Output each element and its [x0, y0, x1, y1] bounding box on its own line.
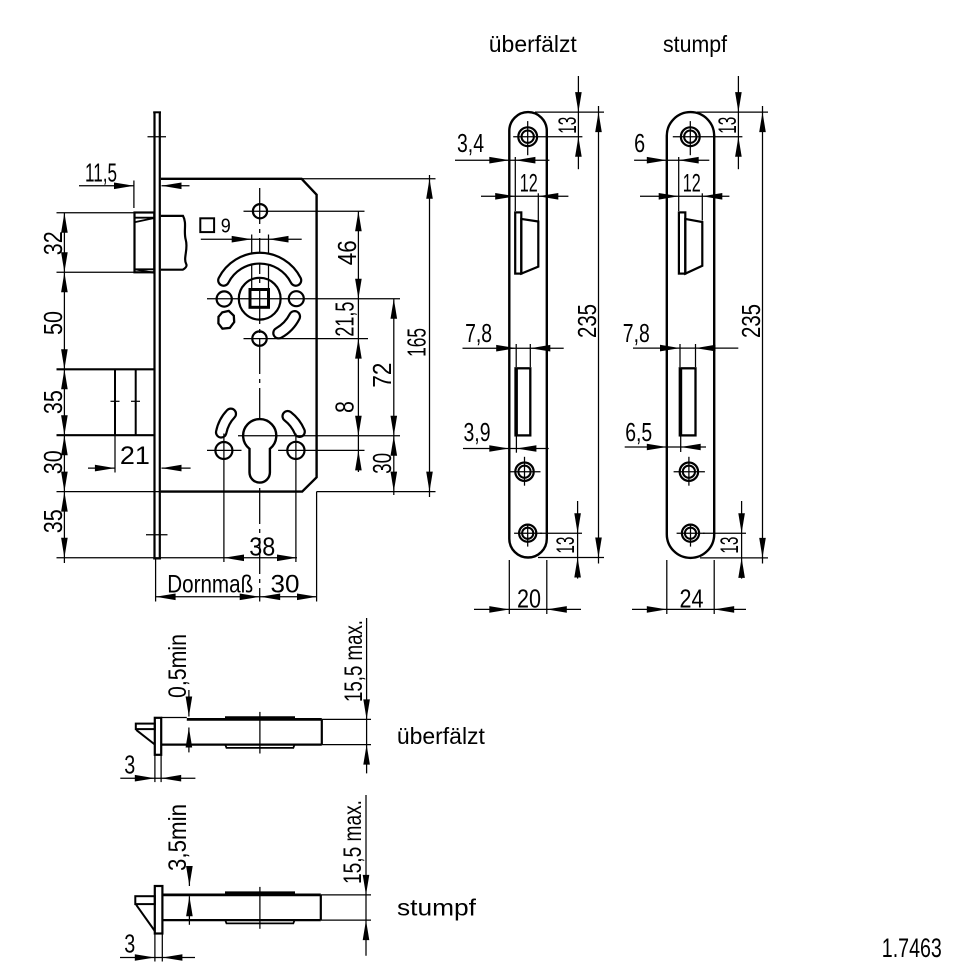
svg-text:8: 8 — [330, 401, 360, 413]
st section latch bevel — [136, 904, 155, 931]
st section case bottom edge — [162, 919, 320, 921]
faceplate (Stulp) front edge - main view — [153, 112, 155, 558]
svg-text:1.7463: 1.7463 — [882, 933, 942, 963]
lower screw hole — [252, 331, 266, 345]
svg-text:13: 13 — [552, 537, 580, 554]
faceplate break tick top — [148, 136, 167, 138]
svg-text:165: 165 — [402, 328, 432, 357]
uf section case top edge — [161, 717, 187, 719]
st section case top edge — [162, 894, 320, 897]
uf section latch bevel — [136, 729, 155, 744]
svg-text:13: 13 — [716, 537, 744, 554]
uf deadbolt slot — [516, 368, 531, 435]
follower arc slot lower right — [279, 317, 295, 334]
uf section extension lines right — [322, 718, 371, 720]
right dim line A 46/21,5/8 — [357, 211, 359, 472]
follower arc slot upper — [224, 258, 296, 280]
svg-text:überfälzt: überfälzt — [397, 723, 486, 749]
st deadbolt slot — [680, 368, 696, 435]
uf latch bevel — [521, 219, 538, 274]
upper screw hole — [253, 204, 267, 218]
cylinder fixing slot right — [288, 416, 300, 432]
profile cylinder hole PZ — [243, 419, 276, 482]
st section latch head — [135, 896, 155, 904]
svg-text:35: 35 — [38, 509, 68, 533]
follower side hole right — [289, 291, 304, 306]
svg-text:Dornmaß: Dornmaß — [167, 571, 253, 599]
st latch bevel — [685, 219, 702, 274]
svg-text:6,5: 6,5 — [625, 417, 652, 447]
cylinder horizontal centerline — [238, 435, 400, 437]
vertical centerline of lock — [259, 188, 261, 602]
svg-text:11,5: 11,5 — [85, 158, 117, 188]
cylinder fixing slot left — [221, 414, 231, 433]
left column arrows — [61, 213, 68, 233]
svg-text:6: 6 — [634, 128, 645, 158]
svg-text:3: 3 — [124, 750, 135, 780]
dimension 38 arrows — [224, 555, 244, 562]
extension and dim line 38 at faceplate bottom — [57, 557, 298, 559]
uf bottom extension line — [538, 557, 604, 559]
svg-text:3,9: 3,9 — [464, 417, 491, 447]
faceplate break tick bottom — [146, 534, 168, 536]
dimension 9 extension lines — [251, 235, 253, 290]
svg-text:30: 30 — [271, 571, 300, 599]
svg-text:30: 30 — [38, 450, 68, 474]
st top extension line — [697, 111, 768, 113]
dimension Dornmass and 30 — [156, 596, 317, 598]
svg-text:38: 38 — [249, 532, 275, 562]
right dim line C 165 — [429, 175, 431, 497]
svg-text:stumpf: stumpf — [663, 31, 728, 57]
dimension 9 line and arrows — [201, 238, 302, 240]
svg-text:7,8: 7,8 — [623, 318, 650, 348]
svg-text:3,5min: 3,5min — [164, 804, 192, 871]
uf section faceplate — [155, 718, 161, 755]
extension lines right side — [302, 178, 436, 180]
svg-text:21: 21 — [120, 442, 150, 470]
left column extension lines — [57, 212, 135, 214]
svg-text:15,5 max.: 15,5 max. — [340, 620, 368, 702]
uf top extension line — [535, 111, 604, 113]
follower slot lower left blob — [218, 311, 234, 329]
svg-text:stumpf: stumpf — [397, 895, 477, 921]
follower hub circle — [239, 278, 281, 320]
st section case bottom bump — [225, 920, 294, 923]
square symbol for 9mm dim — [200, 218, 214, 232]
st middle screw hole — [680, 463, 698, 481]
st latch face bar — [679, 212, 685, 273]
follower side hole left — [217, 291, 232, 306]
svg-text:0,5min: 0,5min — [164, 634, 192, 698]
svg-text:7,8: 7,8 — [465, 318, 492, 348]
svg-text:21,5: 21,5 — [330, 302, 360, 337]
horizontal centerline through follower — [207, 298, 400, 300]
svg-text:12: 12 — [520, 169, 538, 197]
svg-text:72: 72 — [367, 363, 397, 388]
st plate outline — [667, 112, 714, 558]
st section centerline — [259, 887, 261, 929]
st top screw hole — [681, 127, 700, 146]
uf section case bottom edge — [161, 743, 322, 745]
svg-text:12: 12 — [683, 169, 701, 197]
uf plate outline — [509, 112, 547, 557]
uf section case right end — [321, 719, 323, 744]
st section case right end — [320, 895, 322, 920]
latch bolt front view — [135, 213, 155, 273]
svg-text:50: 50 — [38, 311, 68, 335]
svg-text:30: 30 — [367, 453, 397, 474]
svg-text:überfälzt: überfälzt — [489, 31, 578, 57]
svg-text:3: 3 — [124, 929, 135, 959]
st bottom extension line — [700, 557, 768, 559]
uf section latch head — [136, 724, 155, 730]
svg-text:46: 46 — [332, 240, 362, 265]
deadbolt front view — [57, 368, 154, 370]
cylinder screw hole left — [215, 442, 232, 459]
right dim line B 72/30 — [393, 299, 395, 495]
svg-text:235: 235 — [572, 304, 602, 338]
svg-text:235: 235 — [736, 304, 766, 338]
cylinder screw hole right — [287, 442, 304, 459]
svg-text:35: 35 — [38, 390, 68, 414]
svg-text:15,5 max.: 15,5 max. — [339, 800, 367, 884]
follower square spindle hole 9mm — [250, 290, 269, 308]
latch bolt behind faceplate with break line — [161, 216, 187, 270]
svg-text:32: 32 — [38, 231, 68, 255]
uf top screw hole — [518, 127, 537, 146]
left dimension column line — [63, 213, 65, 563]
lock case outline — [161, 179, 317, 492]
uf middle screw hole — [515, 463, 533, 481]
uf section case bottom bump — [225, 745, 294, 748]
st section extension lines right — [321, 894, 371, 896]
uf bottom screw hole — [519, 525, 536, 542]
st section faceplate — [155, 886, 163, 934]
deadbolt centerline dashes — [111, 400, 120, 402]
uf latch face bar — [515, 212, 521, 273]
uf section centerline — [259, 712, 261, 754]
svg-text:3,4: 3,4 — [457, 128, 484, 158]
st bottom screw hole — [682, 525, 699, 542]
svg-text:9: 9 — [221, 216, 231, 238]
